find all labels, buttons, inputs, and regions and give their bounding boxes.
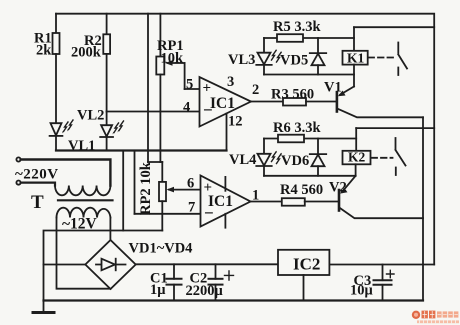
relay coil K1 — [353, 27, 355, 51]
transistor Q2 V2 bar — [338, 190, 341, 211]
svg-text:VL2: VL2 — [77, 108, 104, 124]
svg-text:V2: V2 — [329, 180, 347, 196]
svg-text:12: 12 — [228, 114, 243, 130]
wire secondary right to bridge top — [109, 218, 111, 241]
resistor R4 — [282, 198, 305, 206]
capacitor C2 — [215, 264, 217, 279]
LED VL4 — [263, 139, 265, 154]
ground — [43, 301, 45, 313]
svg-text:VD6: VD6 — [281, 153, 309, 169]
svg-text:+: + — [203, 81, 212, 97]
relay K2 contact — [395, 138, 397, 150]
transformer T primary winding — [55, 186, 110, 196]
svg-text:200k: 200k — [71, 45, 102, 61]
svg-text:VL3: VL3 — [228, 52, 255, 68]
svg-text:7: 7 — [188, 200, 195, 216]
svg-text:2200μ: 2200μ — [186, 283, 224, 299]
svg-text:2: 2 — [252, 82, 259, 98]
relay K1 dashed link — [369, 57, 396, 59]
svg-text:4: 4 — [183, 100, 190, 116]
RP1 wiper arrow — [168, 62, 185, 64]
resistor R1 — [55, 14, 57, 33]
transformer T core — [58, 199, 113, 201]
svg-text:R6 3.3k: R6 3.3k — [273, 120, 321, 136]
relay coil K2 — [355, 128, 357, 151]
wire K1 sub-circuit top — [264, 37, 354, 39]
transistor Q1 V1 collector with arrow — [340, 87, 354, 95]
wire bridge plus to IC2 — [136, 263, 278, 265]
wire K1 branch from rail border — [354, 26, 434, 28]
transistor Q1 V1 emitter — [338, 109, 423, 118]
LED VL1 — [51, 123, 62, 135]
wire bridge minus to left border — [44, 264, 86, 266]
svg-text:5: 5 — [186, 77, 193, 93]
svg-text:2k: 2k — [36, 43, 52, 59]
wire ground link line — [44, 231, 163, 301]
svg-text:+: + — [204, 180, 213, 196]
transformer T secondary winding — [57, 208, 111, 218]
wire pin1 output — [251, 201, 282, 203]
capacitor C3 — [382, 265, 384, 281]
svg-text:3: 3 — [227, 74, 234, 90]
svg-text:10k: 10k — [161, 51, 185, 67]
wire emitter bus vertical — [422, 117, 424, 300]
svg-text:10μ: 10μ — [350, 283, 374, 299]
transistor Q2 V2 emitter — [340, 208, 423, 218]
wire pin4 from R2/VL2 node to op-amp — [107, 111, 200, 113]
svg-text:~220V: ~220V — [15, 167, 59, 183]
svg-text:IC1: IC1 — [210, 95, 235, 112]
svg-text:~12V: ~12V — [62, 216, 98, 233]
wire secondary left to bridge bottom — [57, 218, 111, 289]
svg-text:IC2: IC2 — [293, 255, 320, 274]
svg-text:T: T — [31, 192, 44, 213]
wire pin7 — [135, 213, 201, 215]
svg-text:−: − — [204, 204, 214, 223]
svg-text:K2: K2 — [348, 150, 366, 165]
wire pin5 — [185, 88, 200, 90]
pin tick bottom — [224, 214, 226, 228]
potentiometer RP2 — [161, 162, 163, 182]
transistor Q1 V1 bar — [336, 93, 339, 112]
terminal ~220V top — [16, 157, 20, 161]
wire K1 sub-circuit bottom — [264, 74, 354, 76]
svg-text:RP2 10k: RP2 10k — [138, 161, 154, 215]
svg-text:R5 3.3k: R5 3.3k — [273, 19, 321, 35]
bridge rectifier VD1~VD4 — [85, 240, 135, 289]
wire +V top rail and right border — [56, 14, 434, 265]
relay K1 contact — [397, 43, 399, 54]
svg-text:V1: V1 — [324, 80, 342, 96]
LED VL2 — [106, 112, 108, 126]
wire sensor-to-pin7 vertical — [134, 151, 136, 214]
svg-text:VL4: VL4 — [229, 152, 256, 168]
svg-text:−: − — [203, 101, 213, 120]
svg-text:R4 560: R4 560 — [280, 182, 323, 198]
svg-text:1μ: 1μ — [150, 282, 166, 298]
transistor Q2 V2 collector with arrow — [342, 176, 356, 192]
svg-text:VD1~VD4: VD1~VD4 — [129, 241, 193, 257]
svg-text:1: 1 — [252, 188, 259, 204]
relay K2 dashed link — [372, 157, 393, 159]
wire vertical branch to RP junction — [147, 14, 149, 162]
wire K2 branch from rail border — [356, 127, 434, 129]
capacitor C1 — [173, 264, 175, 279]
diode VD5 — [317, 38, 319, 53]
wire pin12 — [226, 114, 228, 151]
watermark — [412, 311, 459, 324]
wire pin2 output — [251, 101, 283, 103]
pin tick top — [224, 177, 226, 191]
svg-text:VL1: VL1 — [68, 138, 95, 154]
potentiometer RP1 — [159, 14, 161, 57]
resistor R2 — [106, 14, 108, 35]
wire sensor common bottom — [56, 149, 227, 151]
op-amp U2 IC1b — [201, 176, 251, 227]
resistor R3 — [283, 98, 306, 106]
diode VD6 — [317, 139, 319, 155]
svg-text:VD5: VD5 — [280, 53, 308, 69]
regulator IC2 — [278, 250, 329, 275]
op-amp U1 IC1a — [200, 77, 252, 127]
wire K2 sub-circuit bottom — [264, 175, 356, 177]
resistor R5 — [277, 34, 303, 42]
wire K2 sub-circuit top — [264, 138, 356, 140]
RP2 wiper arrow / wire pin6 — [169, 189, 201, 191]
resistor R6 — [278, 135, 304, 143]
terminal ~220V bottom — [16, 181, 20, 185]
svg-text:R3 560: R3 560 — [271, 87, 314, 103]
LED VL3 — [263, 38, 265, 53]
wire bottom ground rail — [44, 299, 424, 301]
svg-text:K1: K1 — [347, 50, 365, 65]
wire sensor-to-ground vertical — [122, 151, 124, 231]
svg-text:6: 6 — [187, 176, 194, 192]
